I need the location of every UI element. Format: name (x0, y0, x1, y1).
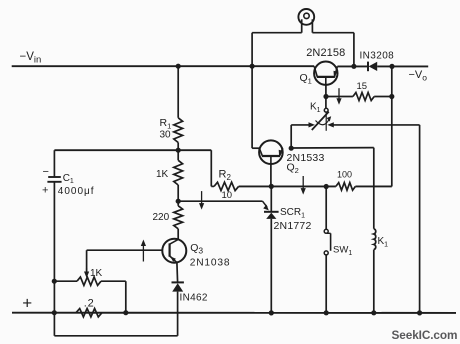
wire right throw vertical (419, 125, 421, 313)
label 2N2158 (306, 47, 345, 59)
switch SW1 (324, 229, 330, 255)
svg-text:−: − (43, 166, 49, 178)
label 220 (153, 212, 170, 223)
scr SCR1 gate lead (263, 201, 269, 210)
wire coil top vertical (373, 148, 375, 229)
arrow current marker at 15 wire (336, 88, 341, 105)
wire C1 to R2 horizontal (54, 149, 211, 151)
wire bottom loop left vertical (53, 313, 55, 336)
wire pot right stub (101, 280, 126, 282)
label K1 contact (310, 102, 321, 115)
svg-text:2N2158: 2N2158 (306, 47, 345, 59)
label 100 (337, 170, 352, 180)
wire R2 stub (211, 185, 214, 187)
svg-text:SeekIC.com: SeekIC.com (392, 328, 458, 342)
label 15 (357, 81, 368, 92)
svg-text:2N1038: 2N1038 (190, 258, 231, 269)
wire lamp right vertical (353, 33, 355, 67)
node 1K/220/gate junction (176, 199, 181, 204)
transistor Q1 (314, 61, 337, 84)
wire lamp left vertical (251, 33, 253, 66)
wire gate horizontal (178, 200, 262, 202)
node bus/R1 junction (176, 64, 181, 69)
wire R1 to 1K (177, 143, 179, 161)
wire K1 left throw with arrowhead (291, 122, 315, 127)
wire pot right down (125, 281, 127, 312)
wire diode anode down (177, 292, 179, 336)
label R2 (219, 169, 232, 183)
label Q2 (287, 162, 299, 176)
wire Q2 collector vertical (251, 66, 253, 148)
label 2N1038 (190, 258, 231, 269)
scr SCR1 2N1772 (264, 212, 279, 219)
wire C1 bottom vertical (53, 182, 55, 313)
label C1 plus (42, 185, 48, 197)
wire diode to -Vo (377, 65, 428, 67)
wire SCR anode (270, 186, 272, 211)
resistor 220 (174, 206, 183, 229)
svg-text:+: + (42, 185, 48, 197)
resistor 15 (353, 93, 374, 101)
wire Q2 collector stub (252, 147, 259, 149)
resistor R1 (174, 118, 183, 143)
node plus-bus/C1 junction (52, 310, 57, 315)
diode CR2 1N3208 (368, 62, 377, 72)
wire SW1 bottom vertical (325, 255, 327, 313)
label 1N3208 (360, 51, 395, 62)
svg-text:100: 100 (337, 170, 352, 180)
svg-text:10: 10 (222, 190, 233, 201)
capacitor C1 (47, 177, 61, 182)
svg-text:15: 15 (357, 81, 368, 92)
wire lamp left horizontal (252, 32, 302, 34)
svg-text:2N1772: 2N1772 (274, 220, 312, 232)
wire bottom loop horizontal (54, 335, 177, 337)
node plus-bus/right-vertical junction (417, 310, 422, 315)
label SW1 (333, 245, 352, 258)
label plus input (22, 294, 32, 313)
wire Q1 emitter to diode (337, 65, 368, 67)
node bus/lamp-Q2 junction (250, 64, 255, 69)
arrow 1K pot wiper (84, 268, 89, 278)
wire C1 top vertical (53, 150, 55, 177)
label C1 minus (43, 166, 49, 178)
wire coil bottom vertical (373, 250, 375, 313)
label R1 (160, 117, 172, 131)
wire pot left stub (54, 280, 77, 282)
transistor Q2 (259, 140, 283, 164)
contact K1 blade (312, 112, 329, 130)
svg-text:1K: 1K (156, 169, 169, 180)
label .2 (84, 298, 95, 310)
label -Vo (409, 69, 428, 83)
node R1/horizontal-wire junction (176, 148, 181, 153)
svg-text:IN3208: IN3208 (360, 51, 395, 62)
label 2N1533 (287, 152, 325, 164)
node Q1 base/15 junction (323, 94, 328, 99)
node 15/right-vertical junction (389, 94, 394, 99)
wire R2 left vertical (210, 150, 212, 186)
svg-text:+: + (22, 294, 32, 313)
wire SCR cathode to bus (270, 219, 272, 313)
node C1/1K-pot junction (52, 279, 57, 284)
wire Q2 base down (270, 164, 272, 186)
wire 220 to Q3 (177, 229, 179, 240)
wire top bus -Vin (12, 65, 315, 67)
label K1 coil (378, 236, 389, 249)
wire Q3 base (87, 249, 163, 251)
arrow current marker at gate wire (199, 191, 204, 210)
arrow current marker above SCR (301, 176, 306, 195)
contact K1 fixed terminal (324, 108, 328, 112)
wire Q2 emitter to K1 coil (291, 147, 374, 149)
arrow marker on Q3 base wire (141, 240, 146, 262)
transistor Q3 (162, 239, 186, 263)
wire Q3 base corner down + wiper arrow (86, 250, 88, 271)
wire Q1 base down (325, 85, 327, 109)
label 1K pot (90, 268, 103, 279)
resistor 100 (336, 183, 356, 191)
potentiometer 1K (77, 277, 101, 285)
label C1 (63, 173, 74, 185)
resistor .2 (76, 309, 102, 317)
svg-text:220: 220 (153, 212, 170, 223)
node plus-bus/SW1 junction (324, 310, 329, 315)
wire Q2 emitter junction vertical (290, 125, 292, 148)
resistor R2 (214, 182, 239, 190)
svg-text:IN462: IN462 (180, 293, 208, 304)
wire 100 to right vertical (355, 185, 391, 187)
wire 15 left (326, 96, 353, 98)
label 10 (222, 190, 233, 201)
label 4000uf (58, 186, 95, 197)
wire SW1 top vertical (325, 187, 327, 230)
label 30 (160, 130, 172, 141)
resistor 1K (174, 160, 183, 185)
label Q1 (300, 72, 312, 86)
node -Vo branch junction (389, 64, 394, 69)
wire lamp right horizontal (312, 32, 354, 34)
node plus-bus/pot junction (123, 310, 128, 315)
label Q3 (190, 242, 203, 256)
svg-text:1K: 1K (90, 268, 103, 279)
label 2N1772 (274, 220, 312, 232)
contact K1 pivot line (325, 112, 327, 131)
node SW1 top junction (324, 184, 329, 189)
label SCR1 (280, 207, 305, 220)
wire R2 to 100 resistor (239, 185, 336, 187)
wire bottom plus bus (12, 312, 456, 314)
node lamp/diode junction (351, 64, 356, 69)
diode CR3 1N462 (172, 282, 184, 291)
label -Vin (20, 51, 42, 66)
node Q2 base/SCR junction (269, 184, 274, 189)
lamp DS1 (298, 9, 314, 33)
svg-text:.2: .2 (84, 298, 95, 310)
node plus-bus/K1-coil junction (371, 310, 376, 315)
wire 15 right (374, 96, 392, 98)
wire Q3 emitter (176, 262, 179, 282)
label SeekIC.com watermark (392, 328, 458, 342)
svg-text:4000μf: 4000μf (58, 186, 95, 197)
wire R1 top lead (177, 66, 179, 118)
node plus-bus/SCR junction (269, 310, 274, 315)
svg-text:30: 30 (160, 130, 172, 141)
wire -Vo node down to 100 wire (391, 66, 393, 186)
wire K1 right throw with arrowhead (327, 122, 419, 127)
label 1K (156, 169, 169, 180)
contact K1 travel arc (316, 116, 332, 125)
wire 1K to 220 (177, 185, 179, 206)
label 1N462 (180, 293, 208, 304)
inductor K1 coil (374, 229, 376, 250)
node Q2 emitter junction (289, 146, 294, 151)
